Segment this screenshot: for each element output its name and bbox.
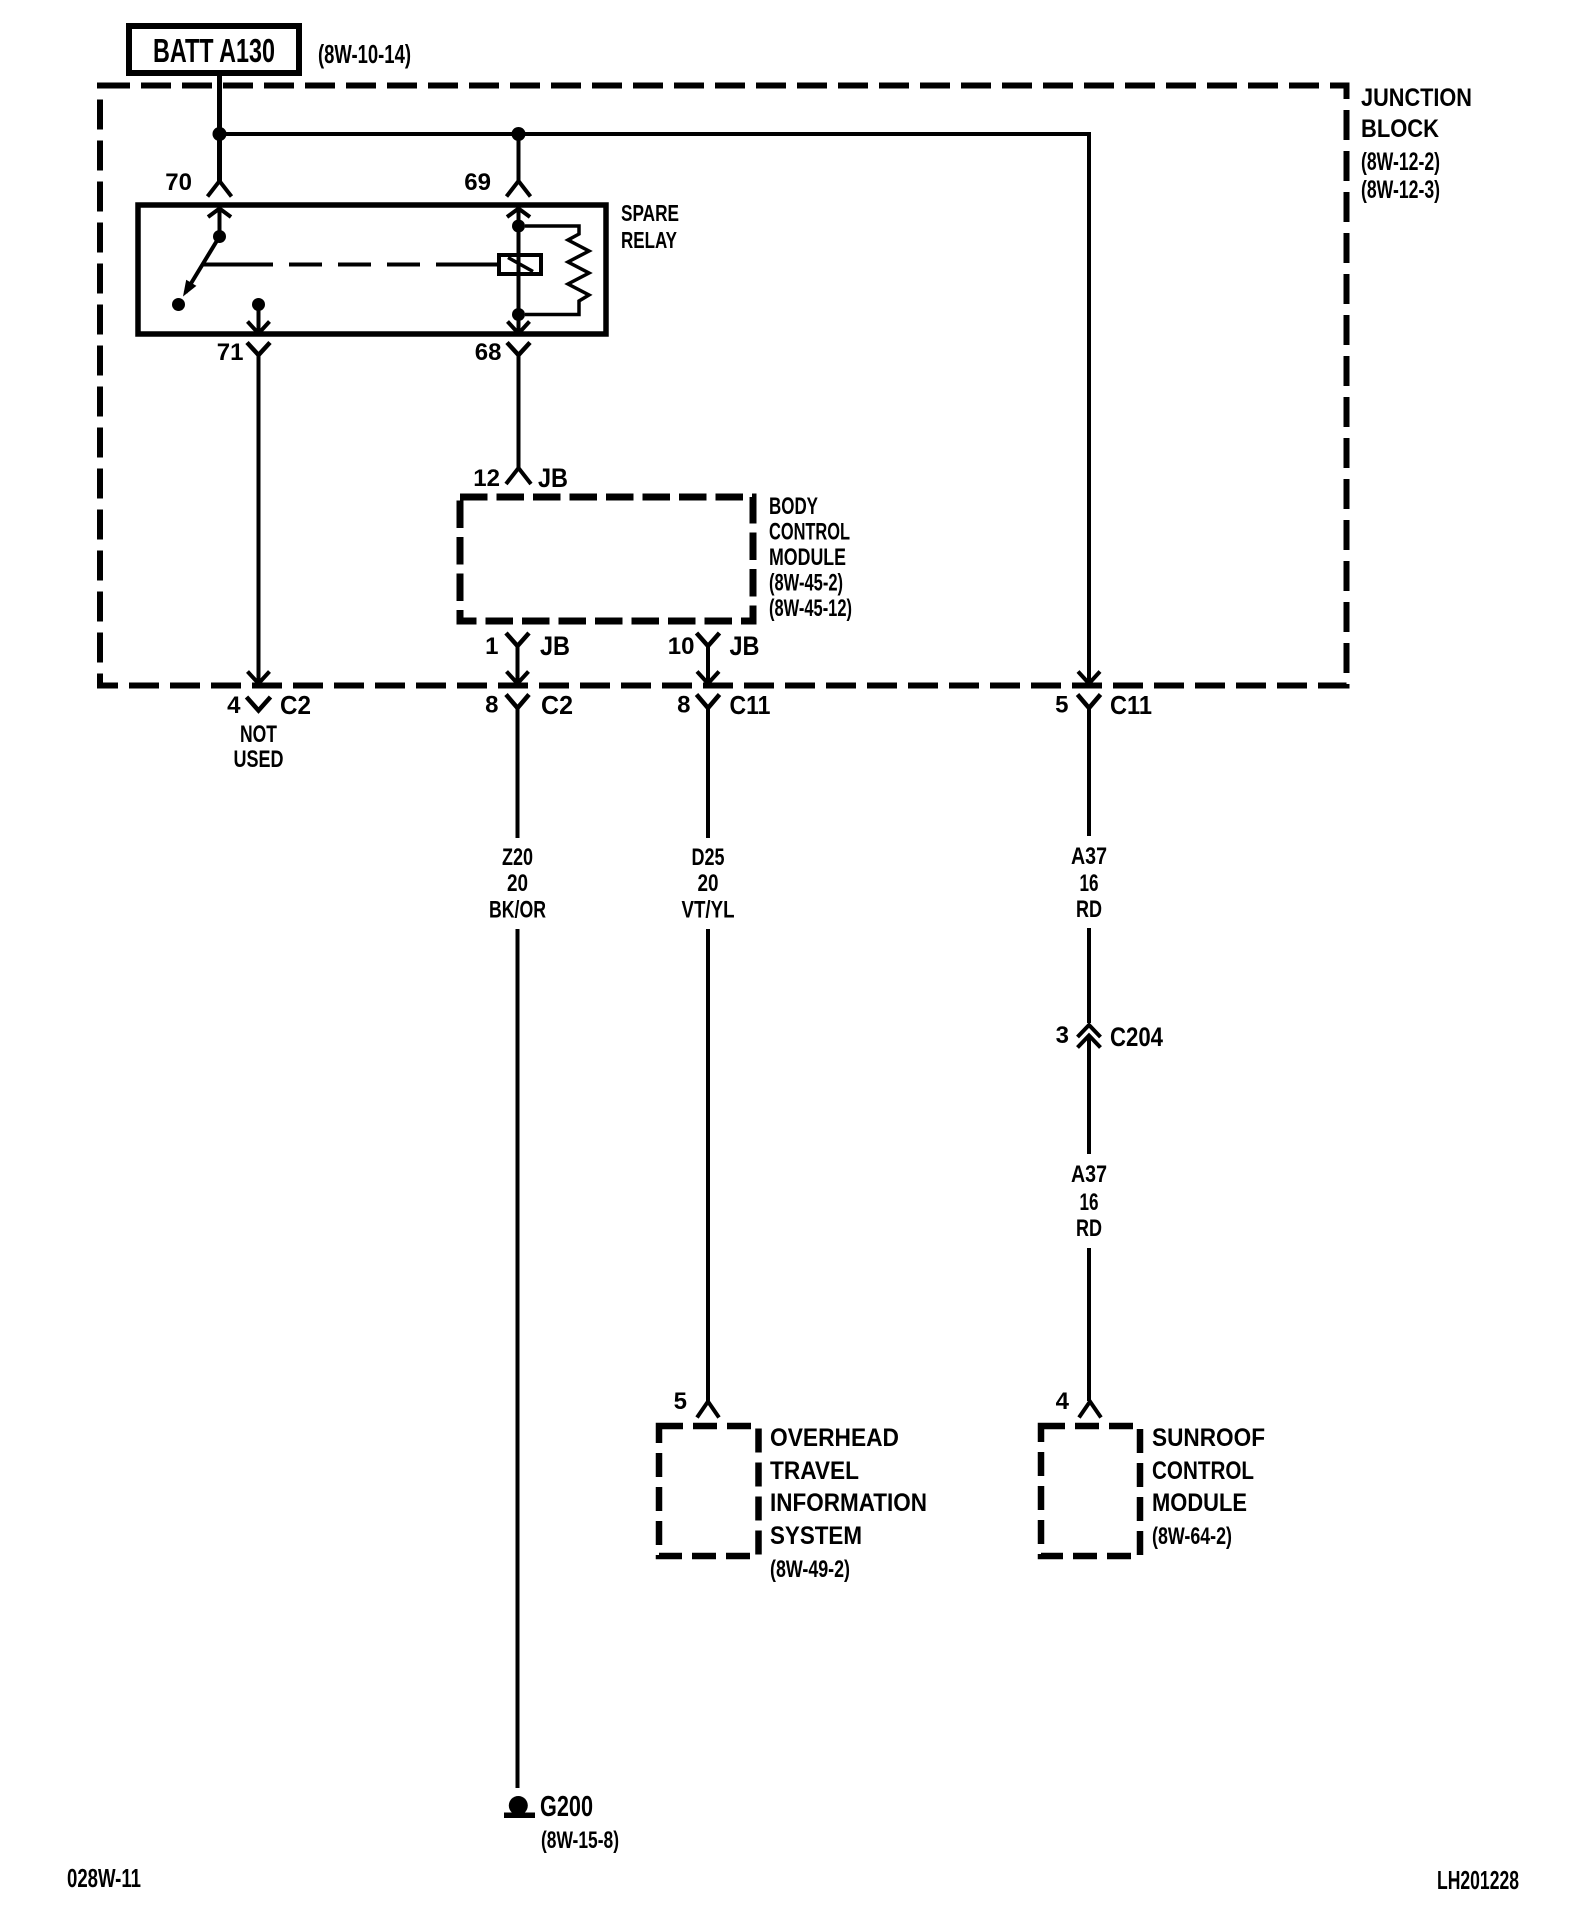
svg-text:INFORMATION: INFORMATION [770,1489,927,1517]
svg-text:A37: A37 [1071,843,1107,870]
svg-text:JB: JB [538,463,568,493]
svg-text:BLOCK: BLOCK [1361,115,1439,143]
svg-text:4: 4 [227,692,241,719]
svg-text:SYSTEM: SYSTEM [770,1522,862,1550]
svg-text:70: 70 [165,169,192,196]
svg-text:(8W-12-2): (8W-12-2) [1361,148,1440,176]
svg-text:(8W-64-2): (8W-64-2) [1152,1523,1232,1550]
svg-text:D25: D25 [692,844,725,871]
svg-text:12: 12 [473,465,500,492]
svg-text:C2: C2 [280,690,311,720]
svg-text:RD: RD [1076,1215,1102,1242]
svg-text:C204: C204 [1110,1022,1163,1052]
svg-text:JUNCTION: JUNCTION [1361,84,1472,112]
svg-text:CONTROL: CONTROL [769,519,850,546]
svg-text:(8W-12-3): (8W-12-3) [1361,176,1440,204]
svg-text:5: 5 [674,1388,687,1415]
svg-text:Z20: Z20 [502,844,533,871]
svg-text:(8W-45-12): (8W-45-12) [769,595,852,622]
svg-text:5: 5 [1055,692,1068,719]
svg-text:71: 71 [217,339,244,366]
svg-text:(8W-10-14): (8W-10-14) [318,39,411,69]
svg-text:SUNROOF: SUNROOF [1152,1424,1265,1452]
svg-text:G200: G200 [540,1791,593,1823]
svg-text:NOT: NOT [240,721,277,748]
svg-text:10: 10 [668,633,695,660]
svg-text:MODULE: MODULE [769,544,846,571]
svg-text:4: 4 [1056,1388,1070,1415]
svg-text:CONTROL: CONTROL [1152,1457,1254,1485]
svg-text:JB: JB [540,631,570,661]
svg-text:USED: USED [234,746,284,773]
svg-text:(8W-15-8): (8W-15-8) [541,1827,619,1854]
svg-text:C11: C11 [1110,690,1152,720]
svg-text:JB: JB [730,631,760,661]
svg-text:69: 69 [464,169,491,196]
svg-text:16: 16 [1080,1189,1099,1216]
svg-text:1: 1 [485,633,498,660]
svg-text:RELAY: RELAY [621,227,677,253]
svg-text:SPARE: SPARE [621,200,679,226]
svg-text:16: 16 [1080,870,1099,897]
svg-text:BODY: BODY [769,493,818,520]
svg-text:OVERHEAD: OVERHEAD [770,1424,899,1452]
svg-text:BATT A130: BATT A130 [153,32,275,69]
svg-text:(8W-49-2): (8W-49-2) [770,1556,850,1583]
svg-text:BK/OR: BK/OR [489,897,546,924]
svg-text:LH201228: LH201228 [1437,1865,1519,1895]
svg-text:(8W-45-2): (8W-45-2) [769,570,843,597]
svg-text:C11: C11 [730,690,771,720]
svg-text:20: 20 [698,870,719,897]
svg-text:68: 68 [475,339,502,366]
svg-text:TRAVEL: TRAVEL [770,1457,859,1485]
svg-text:028W-11: 028W-11 [67,1863,141,1893]
svg-text:RD: RD [1076,896,1102,923]
svg-text:A37: A37 [1071,1161,1107,1188]
svg-text:VT/YL: VT/YL [682,897,735,924]
svg-text:3: 3 [1056,1022,1069,1049]
svg-text:20: 20 [507,870,528,897]
svg-text:MODULE: MODULE [1152,1489,1247,1517]
svg-text:8: 8 [485,692,498,719]
svg-text:C2: C2 [541,690,573,720]
svg-text:8: 8 [677,692,690,719]
